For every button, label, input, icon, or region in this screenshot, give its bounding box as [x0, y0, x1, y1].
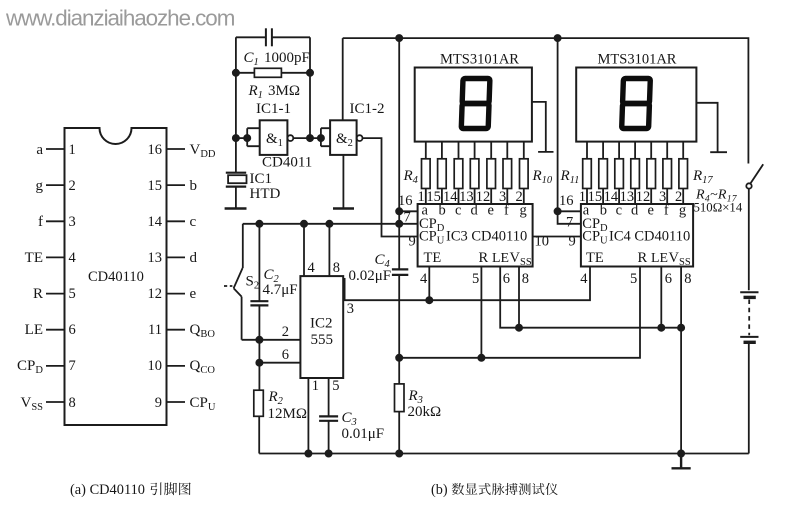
op-amp gate IC1-2 (NAND CD4011) [330, 101, 384, 155]
svg-text:CD40110: CD40110 [88, 269, 144, 285]
svg-text:4: 4 [420, 271, 428, 287]
svg-text:8: 8 [522, 271, 529, 287]
wire IC1-2 output right [363, 138, 419, 236]
svg-text:7: 7 [566, 215, 573, 231]
caption a glyph 引 [150, 482, 161, 495]
wire IC1-1 input [236, 137, 247, 139]
battery GB [740, 292, 758, 342]
resistor R8 [487, 159, 496, 189]
wire IC1-2 VDD to top rail [342, 38, 344, 120]
svg-text:5: 5 [332, 378, 339, 394]
wire 555 pin2 [242, 324, 301, 340]
svg-text:HTD: HTD [250, 186, 281, 202]
resistor R15 [647, 159, 656, 189]
svg-text:&2: &2 [336, 131, 353, 149]
pin 7 (CPD) [17, 358, 76, 376]
wire IC3 pin5 R [480, 267, 482, 358]
caption b glyph 仪 [545, 483, 557, 495]
wire left rail of oscillator [235, 37, 237, 172]
svg-text:3: 3 [347, 301, 354, 317]
wire battery to ground rail [748, 344, 750, 454]
node top rail IC3 branch [396, 35, 402, 41]
svg-text:15: 15 [148, 178, 163, 194]
resistor-to-IC4 wires [587, 189, 683, 205]
node top rail IC4 branch [555, 35, 561, 41]
svg-text:VSS: VSS [669, 250, 691, 268]
svg-text:QCO: QCO [190, 358, 216, 376]
svg-text:20kΩ: 20kΩ [408, 404, 442, 420]
caption a glyph 图 [179, 483, 191, 496]
svg-text:3: 3 [69, 214, 76, 230]
ground IC1-2 [333, 207, 354, 209]
svg-text:CPU: CPU [190, 395, 216, 413]
svg-text:TE: TE [424, 250, 442, 266]
svg-text:c: c [455, 202, 461, 218]
pin 2 (g) [36, 178, 76, 194]
IC4 pin16 stub [558, 193, 581, 212]
ground rail [259, 453, 749, 455]
svg-text:9: 9 [569, 234, 576, 250]
svg-text:f: f [504, 202, 509, 218]
svg-text:8: 8 [69, 395, 76, 411]
resistor R17 [679, 159, 688, 189]
DS2 digit 8 [622, 79, 651, 129]
DS2 common stub [696, 103, 727, 152]
caption b glyph 显 [465, 483, 477, 494]
svg-text:4: 4 [580, 271, 588, 287]
svg-text:7: 7 [404, 210, 411, 226]
svg-text:c: c [616, 202, 622, 218]
svg-text:555: 555 [311, 332, 334, 348]
svg-text:4.7μF: 4.7μF [263, 282, 298, 298]
svg-text:(a) CD40110: (a) CD40110 [70, 482, 145, 498]
svg-text:0.02μF: 0.02μF [349, 268, 392, 284]
svg-text:f: f [38, 214, 43, 230]
pin 12 (e) [148, 286, 197, 302]
svg-text:9: 9 [155, 395, 162, 411]
display DS1 MTS3101AR [415, 52, 532, 142]
wire C1 top [236, 36, 266, 38]
svg-text:5: 5 [472, 271, 479, 287]
wire 555 pin6 [259, 347, 300, 363]
caption a glyph 脚 [164, 482, 177, 495]
svg-text:VSS: VSS [510, 250, 532, 268]
svg-text:a: a [36, 142, 43, 158]
DS2 segment wires to resistors [587, 142, 683, 159]
svg-text:e: e [488, 202, 494, 218]
svg-text:S2: S2 [246, 274, 260, 292]
svg-text:16: 16 [148, 142, 163, 158]
node TE line at IC3 pin4 [426, 297, 432, 303]
counter IC3 CD40110 [418, 202, 533, 268]
wire R1 left [236, 72, 255, 74]
svg-text:R10: R10 [532, 168, 553, 186]
resistor R5 [438, 159, 447, 189]
node IC1-1 input bar [244, 135, 250, 141]
node R3 ground [396, 450, 402, 456]
resistor R6 [454, 159, 463, 189]
svg-text:6: 6 [69, 322, 76, 338]
svg-text:1: 1 [69, 142, 76, 158]
pin 10 (QCO) [148, 358, 216, 376]
DS1 digit 8 [461, 79, 490, 129]
svg-text:5: 5 [69, 286, 76, 302]
IC3 pin10 wire to IC4 CPU [533, 234, 581, 250]
wire 555 pin4 [304, 224, 316, 276]
wire 555 pin1 to ground [308, 378, 319, 454]
svg-text:7: 7 [69, 358, 76, 374]
svg-text:VDD: VDD [190, 142, 216, 160]
svg-text:MTS3101AR: MTS3101AR [598, 52, 677, 68]
node IC4 pin8 on LE line [678, 325, 684, 331]
resistor R7 [470, 159, 479, 189]
svg-text:CD4011: CD4011 [262, 155, 312, 171]
svg-text:13: 13 [148, 250, 163, 266]
top power rail [343, 38, 749, 163]
svg-text:R: R [638, 250, 648, 266]
svg-text:IC3 CD40110: IC3 CD40110 [446, 228, 527, 244]
svg-text:C1: C1 [244, 50, 259, 68]
capacitor C2 [250, 224, 297, 340]
svg-text:g: g [520, 202, 527, 218]
capacitor C4 [349, 252, 409, 284]
svg-text:R11: R11 [560, 168, 580, 186]
node pin6 junction [256, 360, 262, 366]
svg-text:11: 11 [148, 322, 162, 338]
svg-text:MTS3101AR: MTS3101AR [440, 52, 519, 68]
resistor R13 [615, 159, 624, 189]
svg-text:d: d [471, 202, 479, 218]
DS1 pin numbers [418, 189, 523, 205]
svg-text:8: 8 [684, 271, 691, 287]
caption b glyph 测 [519, 483, 531, 495]
crystal IC1 HTD [226, 171, 281, 202]
svg-text:www.dianziaihaozhe.com: www.dianziaihaozhe.com [5, 6, 235, 31]
svg-text:TE: TE [586, 250, 604, 266]
node VDD line to C4 rail [396, 221, 402, 227]
caption b glyph 脉 [492, 483, 505, 495]
IC1-2 input stubs [321, 128, 330, 146]
capacitor C3 on 555 pin5 [319, 378, 384, 454]
node IC3 pin16 on rail [396, 208, 402, 214]
resistor R12 [599, 159, 608, 189]
pin 11 (QBO) [148, 322, 215, 340]
LE ground line [500, 267, 681, 328]
svg-text:b: b [190, 178, 198, 194]
node IC4 pin8 ground [678, 450, 684, 456]
resistor R4 [422, 159, 431, 189]
wire R2 to ground rail [258, 416, 260, 453]
caption b glyph 数 [452, 483, 464, 495]
wire right rail of oscillator [309, 37, 311, 138]
svg-text:12: 12 [148, 286, 163, 302]
svg-text:QBO: QBO [190, 322, 216, 340]
node LE line at IC3 pin8 [516, 325, 522, 331]
pin 16 (VDD) [148, 142, 216, 160]
wire switch to battery [748, 189, 750, 291]
node 555 pin8 top [326, 221, 332, 227]
svg-text:3MΩ: 3MΩ [268, 83, 300, 99]
resistor R16 [663, 159, 672, 189]
IC1-2 output bubble [357, 135, 363, 141]
reset R line [399, 267, 640, 358]
svg-text:6: 6 [665, 271, 672, 287]
svg-text:16: 16 [559, 193, 574, 209]
svg-text:14: 14 [148, 214, 163, 230]
svg-text:IC1: IC1 [250, 171, 273, 187]
svg-text:d: d [190, 250, 198, 266]
resistor R10 [520, 159, 529, 189]
IC4 VDD rail from top [558, 38, 581, 224]
DS1 common stub [532, 102, 554, 152]
svg-text:16: 16 [398, 193, 413, 209]
IC CD40110 pinout body [65, 128, 167, 425]
DS1 segment wires to resistors [426, 142, 524, 159]
resistor-to-IC3 wires [426, 189, 524, 205]
pin 1 (a) [36, 142, 75, 158]
svg-text:VSS: VSS [20, 395, 43, 413]
resistor R9 [503, 159, 512, 189]
node pin2/C2 junction [256, 337, 262, 343]
op-amp gate IC1-1 (NAND CD4011) [256, 101, 312, 171]
pin 8 (VSS) [20, 395, 75, 413]
svg-text:0.01μF: 0.01μF [342, 426, 385, 442]
pin 13 (d) [148, 250, 198, 266]
wire IC1-2 down to ground [342, 155, 344, 209]
node IC4 pin6 on LE line [658, 325, 664, 331]
node 555 pin4 top [301, 221, 307, 227]
node R line left [396, 355, 402, 361]
svg-text:R1: R1 [248, 83, 263, 101]
svg-text:1: 1 [312, 378, 319, 394]
svg-text:&1: &1 [266, 131, 283, 149]
wire IC4 pin8 VSS to ground [680, 267, 682, 454]
wire pin2 node down to pin6/R2 [258, 340, 260, 390]
node R1 right [307, 70, 313, 76]
wire crystal to ground [235, 187, 237, 209]
IC3 bottom pin labels [420, 271, 529, 287]
IC1-1 output bubble [288, 135, 294, 141]
display DS2 MTS3101AR [576, 52, 696, 142]
wire 555 pin8 [329, 224, 340, 276]
svg-text:LE: LE [25, 322, 43, 338]
ground crystal [225, 207, 247, 209]
DS2 pin numbers [579, 189, 682, 205]
svg-text:10: 10 [148, 358, 163, 374]
svg-text:g: g [679, 202, 686, 218]
resistor R14 [631, 159, 640, 189]
svg-text:TE: TE [25, 250, 43, 266]
svg-text:(b): (b) [431, 482, 448, 498]
svg-text:f: f [664, 202, 669, 218]
IC4 bottom pin labels [580, 271, 691, 287]
svg-text:CPD: CPD [17, 358, 43, 376]
svg-text:IC1-2: IC1-2 [350, 101, 385, 117]
node R1 left [233, 70, 239, 76]
svg-text:e: e [190, 286, 197, 302]
pin 14 (c) [148, 214, 197, 230]
svg-text:IC4 CD40110: IC4 CD40110 [609, 228, 690, 244]
caption b glyph 式 [479, 483, 491, 495]
node IC1-1 input [233, 135, 239, 141]
svg-text:10: 10 [535, 234, 550, 250]
resistor R2 [254, 389, 307, 422]
svg-text:g: g [36, 178, 44, 194]
wire C1 top right [272, 36, 310, 38]
wire IC3 pin8 VSS [518, 267, 520, 328]
pin 5 (R) [33, 286, 76, 302]
capacitor C1 [244, 28, 310, 68]
pin 9 (CPU) [155, 395, 216, 413]
resistor R1 [248, 68, 301, 101]
svg-text:LE: LE [651, 251, 668, 266]
caption b glyph 搏 [505, 483, 517, 495]
node feedback junction [307, 135, 313, 141]
pin 15 (b) [148, 178, 198, 194]
svg-text:6: 6 [282, 347, 289, 363]
svg-text:9: 9 [409, 234, 416, 250]
svg-text:IC2: IC2 [310, 316, 333, 332]
svg-text:c: c [190, 214, 197, 230]
IC3 pin16 stub [398, 193, 418, 212]
svg-text:12MΩ: 12MΩ [268, 406, 308, 422]
power-on-reset rail with C4 [398, 38, 400, 269]
wire 555 pin3 output (TE line) [343, 267, 590, 318]
node pin1 ground [305, 450, 311, 456]
wire IC4 pin6 LE [660, 267, 662, 328]
node IC1-2 input bar [318, 135, 324, 141]
svg-text:R: R [33, 286, 43, 302]
node IC4 pin16 on rail [555, 208, 561, 214]
node C2 top [256, 221, 262, 227]
pin 6 (LE) [25, 322, 76, 338]
svg-text:4: 4 [308, 260, 316, 276]
svg-text:R4: R4 [403, 168, 419, 186]
svg-text:510Ω×14: 510Ω×14 [694, 201, 743, 215]
svg-text:LE: LE [492, 251, 509, 266]
svg-text:IC1-1: IC1-1 [256, 101, 291, 117]
wire R1 right [281, 72, 310, 74]
pin 4 (TE) [25, 250, 77, 266]
svg-text:R2: R2 [268, 389, 284, 407]
node C3 ground [326, 450, 332, 456]
pin 3 (f) [38, 214, 76, 230]
timer IC2 555 [300, 276, 343, 378]
svg-text:8: 8 [333, 260, 340, 276]
svg-text:R17: R17 [692, 168, 713, 186]
ground symbol main [672, 454, 691, 469]
svg-text:1000pF: 1000pF [264, 50, 310, 66]
counter IC4 CD40110 [581, 202, 693, 268]
svg-text:2: 2 [69, 178, 76, 194]
wire IC3 pin4 TE [428, 267, 430, 301]
svg-text:b: b [439, 202, 446, 218]
svg-text:2: 2 [282, 324, 289, 340]
svg-text:e: e [648, 202, 654, 218]
node R line at IC3 pin5 [478, 355, 484, 361]
svg-text:R: R [479, 250, 489, 266]
svg-text:5: 5 [630, 271, 637, 287]
VDD distribution wire [243, 223, 418, 225]
resistor R3 [395, 358, 442, 454]
svg-text:6: 6 [503, 271, 510, 287]
svg-text:4: 4 [69, 250, 77, 266]
wire IC1-1 out to IC1-2 in [293, 137, 321, 139]
switch S2 [224, 224, 259, 340]
IC1-1 input stubs [247, 128, 260, 146]
resistor R11 [583, 159, 592, 189]
switch S1 arm [750, 164, 763, 183]
caption b glyph 试 [532, 483, 544, 495]
switch S1 contact [746, 183, 751, 188]
svg-text:b: b [600, 202, 607, 218]
svg-text:d: d [631, 202, 639, 218]
wire C4 to R line [398, 275, 400, 358]
